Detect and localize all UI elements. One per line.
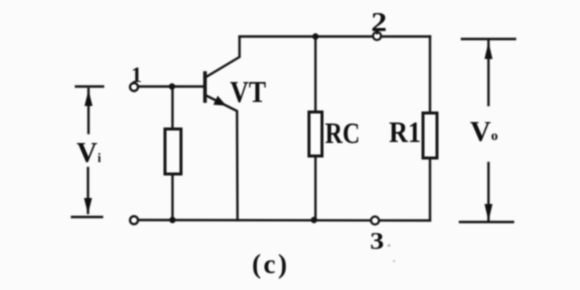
transistor VT emitter arrow (NPN) (213, 96, 226, 106)
wire: top rail to RC (314, 37, 316, 113)
junction dot Rb/bottom rail (169, 217, 175, 223)
Vi measure bottom bar (72, 216, 102, 218)
svg-text:(c): (c) (252, 249, 287, 279)
junction dot top rail / RC (312, 33, 318, 39)
wire: junction down to resistor Rb (171, 87, 173, 130)
svg-text:VT: VT (230, 74, 266, 109)
Vi upper arrow shaft (87, 89, 89, 133)
transistor VT emitter lead (206, 96, 238, 221)
wire: RC to bottom rail (314, 156, 316, 220)
Vo lower arrowhead (points down) (485, 204, 493, 221)
Vi lower arrow shaft (87, 168, 89, 213)
Vo upper arrowhead (points up) (485, 42, 493, 59)
top rail wire node 2 (240, 35, 431, 37)
svg-text:3: 3 (370, 229, 384, 255)
speck artifact (388, 244, 391, 247)
svg-text:Vo: Vo (470, 116, 498, 148)
wire tick below label 2 (376, 32, 378, 34)
wire: top rail right corner down to R1 (429, 37, 431, 114)
terminal 2 open circle (373, 32, 381, 40)
resistor R1 body (423, 113, 437, 158)
Vo measure top bar (462, 38, 515, 40)
terminal 1 open circle (130, 83, 138, 91)
wire: input node 1 to base (138, 85, 204, 87)
terminal (bottom left) open circle (130, 216, 138, 224)
Vi upper arrowhead (points up) (85, 90, 93, 106)
terminal 3 open circle (371, 217, 379, 225)
transistor VT collector lead (206, 37, 240, 77)
svg-text:R1: R1 (389, 116, 421, 149)
Vi lower arrowhead (points down) (84, 198, 92, 214)
Vo measure bottom bar (460, 221, 513, 223)
junction dot RC/bottom rail (311, 217, 317, 223)
speck artifact (393, 260, 395, 262)
svg-text:2: 2 (371, 7, 387, 37)
transistor VT base bar (203, 73, 207, 101)
svg-text:RC: RC (325, 117, 360, 150)
bottom rail wire node 3 (138, 219, 430, 222)
Vo upper arrow shaft (487, 41, 489, 105)
Vo lower arrow shaft (487, 163, 489, 220)
resistor Rb body (165, 129, 181, 174)
wire: R1 to bottom rail corner (429, 158, 431, 220)
junction dot node base/Rb (169, 83, 175, 89)
wire: resistor Rb to bottom rail (171, 174, 173, 220)
Vi measure top bar (76, 85, 103, 87)
svg-text:1: 1 (131, 62, 142, 87)
resistor RC body (309, 112, 322, 156)
svg-text:Vi: Vi (77, 137, 102, 169)
